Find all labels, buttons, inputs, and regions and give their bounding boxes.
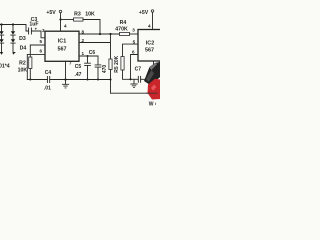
resistor R4 bbox=[115, 20, 138, 35]
wire bbox=[0, 25, 28, 32]
svg-text:3: 3 bbox=[42, 28, 45, 33]
svg-text:R2: R2 bbox=[19, 60, 26, 66]
wire bbox=[32, 31, 45, 38]
pin 7 wire IC1 bbox=[65, 61, 67, 79]
svg-text:01*4: 01*4 bbox=[0, 63, 10, 69]
capacitor C7 bbox=[135, 67, 146, 83]
svg-text:1: 1 bbox=[82, 51, 85, 56]
op IC1 567 bbox=[45, 31, 79, 61]
svg-text:.47: .47 bbox=[75, 72, 82, 78]
pin 7 stub IC2 bbox=[154, 61, 159, 67]
svg-text:D4: D4 bbox=[20, 45, 27, 51]
svg-text:6: 6 bbox=[40, 49, 43, 54]
resistor R2 bbox=[18, 57, 32, 81]
node R3 junction bbox=[99, 33, 101, 35]
svg-text:C6: C6 bbox=[89, 50, 96, 56]
svg-text:IC1: IC1 bbox=[58, 38, 66, 44]
resistor R3 bbox=[61, 12, 101, 34]
svg-text:C5: C5 bbox=[75, 64, 82, 70]
wire over logo bbox=[146, 92, 158, 94]
capacitor C3 bbox=[29, 17, 39, 34]
svg-text:W: W bbox=[149, 102, 154, 108]
capacitor C4 bbox=[44, 70, 51, 92]
svg-text:7: 7 bbox=[156, 62, 159, 67]
svg-text:+5V: +5V bbox=[139, 10, 149, 16]
svg-text:D3: D3 bbox=[19, 36, 26, 42]
svg-text:5: 5 bbox=[133, 39, 136, 44]
svg-text:8: 8 bbox=[82, 29, 85, 34]
power +5V terminal left bbox=[46, 10, 61, 31]
svg-text:567: 567 bbox=[145, 47, 154, 53]
diode D4 bbox=[11, 39, 27, 55]
svg-text:470K: 470K bbox=[115, 26, 128, 32]
svg-text:C7: C7 bbox=[135, 67, 142, 73]
svg-text:R5 20K: R5 20K bbox=[114, 55, 120, 72]
svg-text:4: 4 bbox=[148, 24, 151, 29]
ground bbox=[62, 80, 69, 88]
resistor 470 bbox=[102, 59, 112, 93]
svg-text:5: 5 bbox=[40, 39, 43, 44]
svg-text:6: 6 bbox=[132, 50, 135, 55]
ground rail left bbox=[27, 79, 110, 81]
pin 1 wire bbox=[79, 55, 98, 57]
node junction far-left bbox=[0, 23, 2, 25]
svg-text:4: 4 bbox=[64, 23, 67, 28]
pin 6 wire IC2 bbox=[131, 55, 139, 80]
svg-text:.01: .01 bbox=[44, 86, 51, 92]
svg-text:+5V: +5V bbox=[46, 10, 56, 16]
pin 5 wire IC1 bbox=[30, 45, 45, 57]
svg-text:i: i bbox=[155, 101, 156, 106]
pin 2 wire bbox=[79, 34, 111, 59]
svg-text:10K: 10K bbox=[85, 12, 95, 18]
svg-text:C4: C4 bbox=[45, 70, 52, 76]
svg-text:10K: 10K bbox=[18, 68, 28, 74]
node R4 junction bbox=[109, 33, 111, 35]
pin 8 wire bbox=[79, 33, 120, 35]
diode D3 bbox=[11, 25, 26, 42]
svg-text:IC2: IC2 bbox=[146, 40, 154, 46]
svg-text:3: 3 bbox=[132, 28, 135, 33]
diode D1 (cut off at edge) bbox=[0, 25, 4, 40]
svg-text:R3: R3 bbox=[74, 12, 81, 18]
resistor R5 bbox=[114, 55, 138, 79]
capacitor C6 bbox=[89, 50, 101, 80]
watermark logo bbox=[144, 62, 160, 108]
power +5V terminal right bbox=[139, 10, 154, 30]
diode D2 (cut off at edge) bbox=[0, 39, 4, 55]
pin 6 wire IC1 bbox=[27, 54, 45, 79]
op IC2 567 bbox=[138, 30, 161, 62]
svg-text:7: 7 bbox=[69, 61, 72, 66]
ground right bbox=[130, 79, 137, 87]
node rail corner bbox=[109, 78, 111, 80]
node junction top-left bbox=[12, 23, 14, 25]
pin 5 wire IC2 bbox=[123, 44, 139, 56]
svg-text:R4: R4 bbox=[120, 20, 127, 26]
svg-text:470: 470 bbox=[102, 65, 108, 74]
capacitor C5 bbox=[75, 55, 91, 81]
svg-text:2: 2 bbox=[82, 38, 85, 43]
svg-text:567: 567 bbox=[58, 46, 67, 52]
ground rail lower right bbox=[111, 92, 158, 94]
